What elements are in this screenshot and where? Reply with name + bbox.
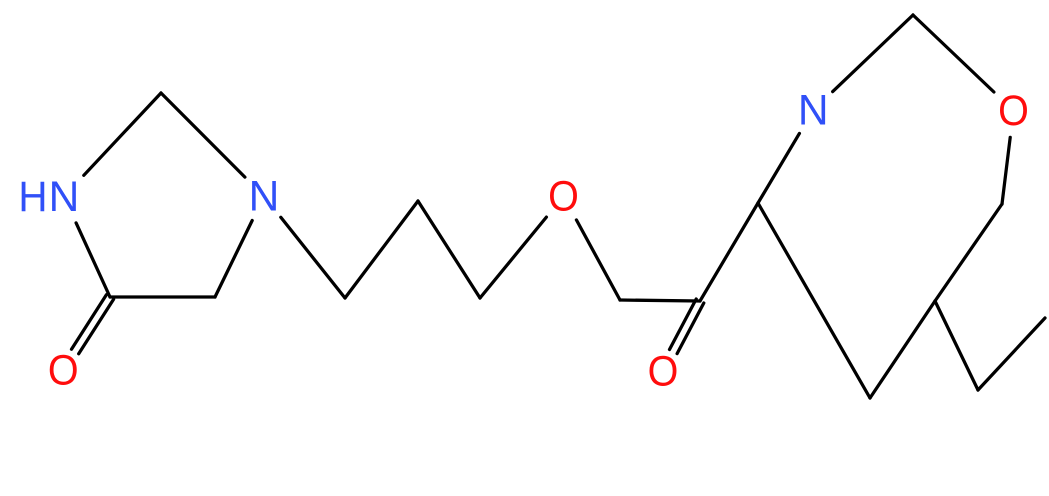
wire bond O4-CH2 (576, 220, 620, 300)
wire bond C5=O1 carbonyl line1 (72, 295, 107, 350)
wire bond CH-N2 (758, 133, 799, 203)
wire bond chain CH2-O4 (480, 217, 546, 298)
svg-text:N: N (798, 88, 829, 135)
svg-text:O: O (998, 87, 1029, 135)
svg-text:O: O (48, 346, 79, 394)
wire bond chain CH2-CH2b (418, 201, 480, 298)
wire bond ring1 N3-C4 (215, 221, 252, 298)
wire bond C5=O1 carbonyl line2 (79, 299, 114, 354)
wire bond ring1 C5-N1 (76, 223, 110, 297)
wire bond CH2-C(=O) (620, 300, 700, 301)
wire bond E=O5 carbonyl line1 (670, 299, 697, 350)
wire bond ring2 CH2bot-CH long (758, 203, 870, 398)
wire bond chain N3-CH2 (281, 217, 345, 298)
wire bond ring1 C2-N3 (161, 93, 245, 177)
svg-text:H: H (18, 172, 47, 220)
wire bond ethyl CH2-CH3 (978, 318, 1045, 390)
wire bond ring2 N2-CH2top (833, 15, 913, 92)
wire bond chain CH2-CH2 (345, 201, 418, 298)
wire bond ring2 CH2-CH (935, 204, 1002, 301)
wire bond C(=O)-CH (700, 203, 758, 301)
wire bond ring1 N1-C2 (84, 93, 161, 175)
wire bond E=O5 carbonyl line2 (677, 303, 704, 354)
wire bond ring1 C4-C5 (110, 295, 215, 298)
svg-text:O: O (648, 347, 679, 395)
wire bond ring2 O6-CH2 (1002, 137, 1010, 204)
wire bond ethyl CH-CH2 (935, 301, 978, 390)
wire bond ring2 CH-CH2bot (870, 301, 935, 398)
svg-text:N: N (249, 174, 280, 221)
svg-text:O: O (548, 172, 579, 220)
svg-text:N: N (49, 174, 80, 221)
wire bond ring2 CH2top-O6 (913, 15, 994, 92)
